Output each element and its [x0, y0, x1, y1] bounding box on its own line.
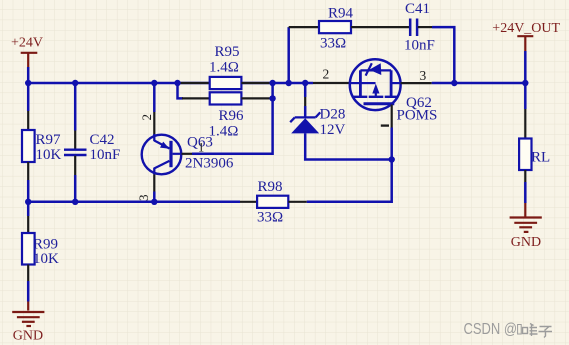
- resistor R94: [289, 6, 410, 52]
- wire C42 upper: [74, 83, 77, 131]
- junction dot D28 node: [389, 156, 395, 162]
- svg-text:CSDN @: CSDN @: [464, 321, 518, 338]
- wire left rail upper: [27, 83, 30, 111]
- wire Q63 collector to bottom rail: [153, 174, 155, 191]
- svg-text:10nF: 10nF: [404, 38, 435, 54]
- power port +24V: [11, 36, 43, 68]
- resistor R96: [182, 92, 273, 139]
- svg-text:2N3906: 2N3906: [185, 156, 234, 172]
- svg-text:GND: GND: [13, 329, 43, 344]
- svg-text:C42: C42: [90, 132, 115, 148]
- svg-text:3: 3: [136, 195, 151, 202]
- wire +24V stem: [27, 67, 30, 83]
- svg-text:+24V_OUT: +24V_OUT: [492, 21, 560, 36]
- pin number 1 Q62 (rotated dash): [381, 124, 389, 126]
- svg-text:C41: C41: [405, 1, 430, 17]
- svg-text:GND: GND: [511, 235, 541, 250]
- resistor RL: [519, 83, 550, 182]
- svg-text:R95: R95: [215, 44, 240, 60]
- wire gate stub blue: [305, 82, 313, 85]
- wire Q62 pin3: [401, 82, 432, 84]
- resistor R95: [178, 44, 273, 89]
- svg-text:33Ω: 33Ω: [257, 210, 283, 226]
- svg-text:R98: R98: [258, 179, 283, 195]
- svg-text:33Ω: 33Ω: [320, 36, 346, 52]
- resistor R98: [240, 179, 307, 226]
- ground GND right: [510, 203, 542, 250]
- wire D28 anode to junction: [305, 133, 392, 159]
- svg-text:R96: R96: [219, 108, 245, 124]
- wire C42 to bottom rail: [74, 175, 77, 202]
- svg-text:2: 2: [323, 67, 330, 82]
- junction dots bottom rail: [25, 199, 158, 205]
- capacitor C41: [404, 1, 435, 54]
- svg-text:RL: RL: [531, 150, 550, 166]
- wire R97 to bottom rail: [27, 180, 30, 202]
- wire R94 left vertical: [287, 27, 290, 83]
- svg-text:POMS: POMS: [397, 108, 438, 124]
- power port +24V_OUT: [492, 21, 560, 51]
- wire bottom rail: [28, 201, 240, 204]
- svg-text:1.4Ω: 1.4Ω: [209, 124, 239, 140]
- svg-text:10K: 10K: [36, 147, 62, 163]
- svg-text:+24V: +24V: [11, 36, 43, 51]
- svg-text:1.4Ω: 1.4Ω: [209, 60, 239, 76]
- svg-text:D28: D28: [320, 107, 346, 123]
- junction dots top rail: [25, 80, 529, 86]
- svg-text:R97: R97: [36, 132, 62, 148]
- wire Q63 emitter drop: [153, 83, 156, 112]
- transistor Q62 (MOSFET): [313, 59, 437, 123]
- wire R99 to ground: [27, 281, 30, 302]
- wire R95R96 right vertical: [192, 83, 273, 154]
- transistor Q63: [142, 112, 234, 174]
- wire C41 right corner: [432, 27, 454, 83]
- resistor R97: [22, 111, 62, 180]
- junction dot R96 right: [269, 95, 275, 101]
- svg-text:3: 3: [420, 68, 427, 83]
- svg-text:1: 1: [198, 141, 204, 155]
- wire R96 left drop: [178, 83, 184, 98]
- wire RL to ground: [524, 182, 527, 203]
- svg-text:2: 2: [139, 114, 154, 121]
- watermark CSDN: [464, 321, 553, 338]
- wire junction to bottom rail corner: [307, 160, 392, 202]
- svg-text:10nF: 10nF: [90, 147, 121, 163]
- wire Q62 pin1 down: [391, 105, 393, 128]
- capacitor C42: [64, 131, 120, 176]
- wire +24V_OUT stem: [524, 51, 527, 83]
- ground GND left: [12, 302, 44, 344]
- svg-text:R94: R94: [328, 6, 354, 22]
- svg-text:12V: 12V: [320, 122, 346, 138]
- resistor R99: [22, 202, 59, 281]
- svg-text:10K: 10K: [33, 251, 59, 267]
- zener diode D28: [290, 83, 345, 138]
- wire top rail: [28, 82, 305, 85]
